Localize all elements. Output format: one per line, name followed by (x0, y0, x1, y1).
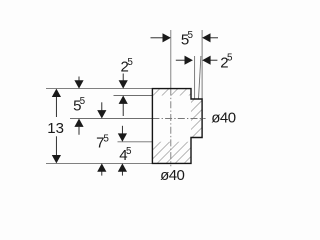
svg-text:5: 5 (127, 57, 133, 68)
svg-text:5: 5 (126, 146, 132, 157)
svg-text:13: 13 (47, 120, 64, 137)
svg-text:ø40: ø40 (160, 167, 184, 184)
svg-text:5: 5 (188, 30, 194, 41)
svg-text:5: 5 (227, 52, 233, 63)
svg-text:5: 5 (80, 96, 86, 107)
svg-text:5: 5 (103, 133, 109, 144)
svg-text:ø40: ø40 (211, 109, 235, 126)
